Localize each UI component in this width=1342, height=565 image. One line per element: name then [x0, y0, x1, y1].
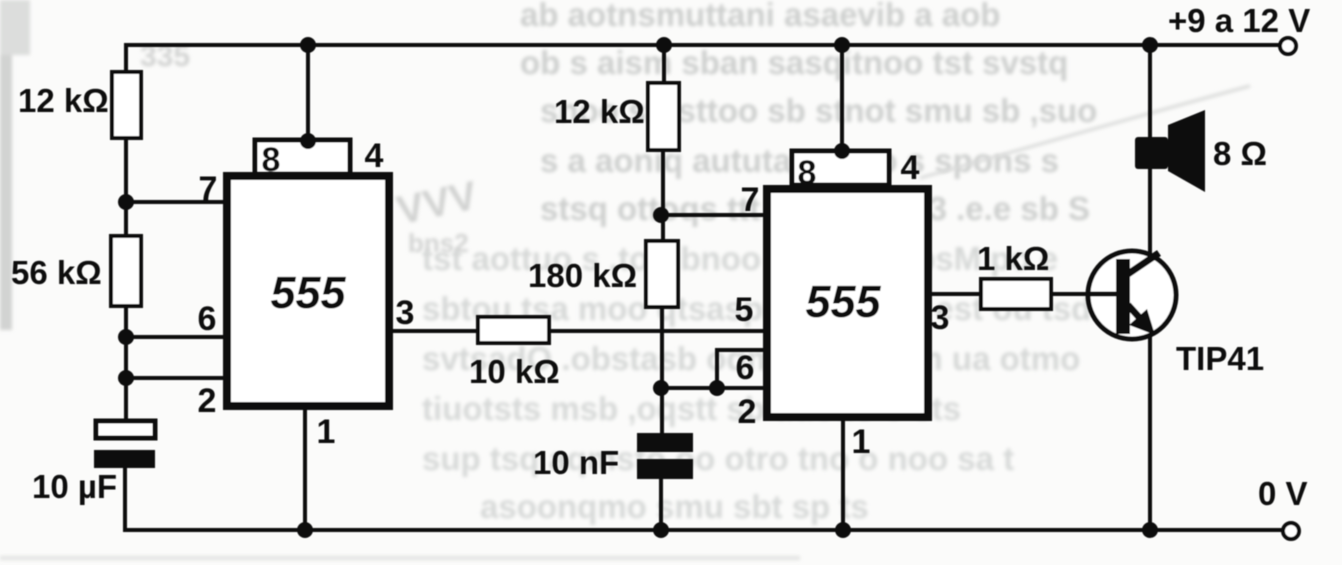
svg-text:0 V: 0 V: [1258, 475, 1308, 512]
wire U1 pin1 down to rail: [303, 408, 307, 530]
IC U2 555 body: [767, 189, 928, 417]
svg-text:6: 6: [736, 349, 755, 387]
svg-text:2: 2: [738, 393, 757, 431]
wire R4 bottom down to C2: [660, 307, 664, 435]
junction node top rail speaker: [1142, 37, 1158, 53]
wire C1 bottom to ground rail: [123, 468, 127, 530]
wire U2 bracket supply drop: [840, 45, 844, 153]
wire R2 bottom down to C1: [124, 306, 128, 422]
transistor Q1 emitter arrowhead: [1129, 309, 1155, 335]
resistor R5 10 kΩ: [478, 317, 549, 343]
junction node ground rail U2 pin1: [835, 522, 851, 538]
wire C2 bottom to rail: [659, 477, 663, 530]
wire R5 to U2 pin5: [549, 329, 765, 333]
svg-text:3: 3: [396, 294, 415, 332]
svg-text:7: 7: [741, 181, 760, 219]
svg-text:56 kΩ: 56 kΩ: [11, 254, 102, 291]
capacitor C1 10 µF plate 1: [96, 421, 155, 438]
svg-text:10 nF: 10 nF: [533, 444, 619, 481]
IC U1 555 body: [227, 176, 389, 406]
terminal 0 V: [1283, 523, 1299, 539]
wire R6 to Q1 base: [1050, 292, 1113, 296]
junction node R4/C2: [653, 380, 669, 396]
wire U2 pin1 down to rail: [841, 417, 845, 530]
svg-text:tst aottuo s ,totubnoo ts stsu: tst aottuo s ,totubnoo ts stsupsbsM po e: [422, 240, 1058, 277]
transistor Q1 base wire inside: [1087, 292, 1116, 297]
wire node C to U2 pin2: [661, 386, 765, 390]
junction node top rail above R3: [656, 37, 672, 53]
U1 pins 8-4 supply bracket: [255, 140, 350, 174]
U2 pins 8-4 supply bracket: [792, 151, 889, 185]
svg-text:VVV: VVV: [393, 173, 481, 233]
svg-text:8: 8: [262, 141, 281, 179]
junction node ground rail C2: [653, 522, 669, 538]
junction node top rail above U2: [834, 37, 850, 53]
speaker LS1 cone: [1168, 110, 1205, 192]
wire bottom ground rail: [125, 528, 1282, 532]
svg-text:4: 4: [901, 149, 920, 187]
wire R1 bottom to R2 top: [124, 138, 128, 236]
svg-text:3: 3: [931, 299, 950, 337]
resistor R3 12 kΩ: [648, 83, 679, 150]
background ghost bleed-through text (decorative): [422, 0, 1097, 525]
resistor R2 56 kΩ: [111, 236, 141, 306]
wire U2 pin3 to R6: [928, 292, 981, 296]
svg-text:6: 6: [198, 300, 217, 338]
svg-text:10 µF: 10 µF: [32, 468, 117, 505]
svg-text:4: 4: [365, 137, 384, 175]
wire node B to U2 pin7: [661, 213, 765, 217]
terminal +9 a 12 V: [1280, 38, 1296, 54]
junction node left rail pin6: [118, 329, 134, 345]
wire U1 pin3 to R5: [392, 329, 478, 333]
svg-text:555: 555: [270, 267, 346, 318]
wire rail down to speaker: [1148, 45, 1152, 140]
svg-text:12 kΩ: 12 kΩ: [554, 93, 645, 130]
transistor Q1 emitter stroke: [1128, 305, 1147, 326]
wire Q1 emitter down to rail: [1148, 337, 1152, 530]
junction node R4 to pin7: [653, 207, 669, 223]
junction node on U1 bracket: [300, 133, 316, 149]
svg-text:TIP41: TIP41: [1176, 340, 1264, 377]
capacitor C1 10 µF plate 2: [94, 450, 155, 468]
svg-text:5: 5: [735, 291, 754, 329]
wire top supply rail: [126, 43, 1279, 47]
wire pin 6 from left rail to U1: [126, 335, 225, 339]
wire pin 7 from left rail to U1: [126, 200, 225, 204]
wire U1 bracket supply drop: [306, 45, 310, 140]
svg-text:12 kΩ: 12 kΩ: [18, 82, 109, 119]
svg-text:10 kΩ: 10 kΩ: [469, 353, 560, 390]
speaker LS1 magnet: [1135, 137, 1168, 169]
svg-text:555: 555: [805, 276, 881, 327]
junction node left rail pin2: [118, 370, 134, 386]
wire left chain top (rail to R1): [124, 45, 128, 72]
svg-text:180 kΩ: 180 kΩ: [528, 257, 637, 294]
svg-text:8: 8: [798, 154, 817, 192]
resistor R1 12 kΩ: [112, 72, 141, 138]
transistor Q1 collector stroke: [1128, 253, 1159, 274]
svg-text:asoonqmo smu sbt sp ts: asoonqmo smu sbt sp ts: [480, 488, 869, 525]
svg-text:1: 1: [852, 423, 871, 461]
wire R3 bottom to R4 top: [661, 150, 665, 241]
svg-text:7: 7: [199, 170, 218, 208]
svg-text:1: 1: [317, 413, 336, 451]
svg-text:1 kΩ: 1 kΩ: [977, 240, 1049, 277]
svg-text:sup tsq aqmsto oo otro tno o n: sup tsq aqmsto oo otro tno o noo sa t: [422, 440, 1014, 477]
wire rail to R3 top: [662, 45, 666, 83]
resistor R4 180 kΩ: [646, 241, 678, 307]
junction node on top rail above U1: [300, 37, 316, 53]
capacitor C2 10 nF plate 1: [637, 433, 693, 452]
junction node left rail pin7: [118, 194, 134, 210]
wire speaker to Q1 collector: [1148, 167, 1152, 255]
svg-text:ab aotnsmuttani asaevib a aob: ab aotnsmuttani asaevib a aob: [520, 0, 1000, 33]
wire pin6 bracket of U2: [717, 350, 765, 388]
junction node ground rail Q1 emitter: [1142, 522, 1158, 538]
junction node pin6 bracket: [709, 380, 725, 396]
svg-text:ob s aism sban sasqitnoo tst s: ob s aism sban sasqitnoo tst svstq: [520, 44, 1068, 81]
svg-text:8 Ω: 8 Ω: [1213, 135, 1267, 172]
junction node on U2 bracket: [834, 143, 850, 159]
capacitor C2 10 nF plate 2: [637, 459, 693, 479]
svg-text:+9 a 12 V: +9 a 12 V: [1168, 2, 1310, 39]
junction node ground rail U1 pin1: [297, 522, 313, 538]
svg-text:bns2: bns2: [408, 228, 469, 258]
resistor R6 1 kΩ: [981, 279, 1051, 309]
transistor Q1 base bar: [1116, 259, 1130, 334]
svg-text:2: 2: [198, 382, 217, 420]
wire pin 2 from left rail to U1: [126, 376, 225, 380]
transistor Q1 TIP41 circle: [1088, 251, 1176, 339]
